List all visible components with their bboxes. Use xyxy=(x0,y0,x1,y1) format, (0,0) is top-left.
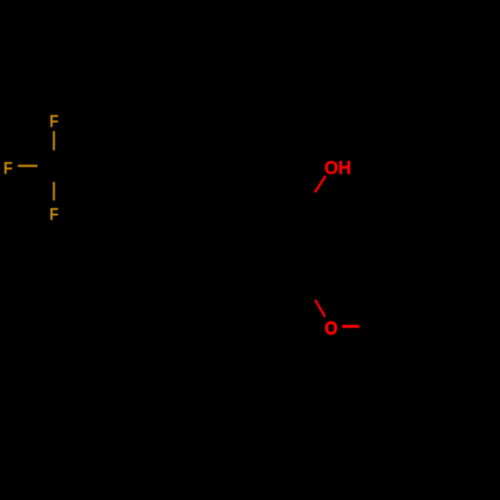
svg-text:F: F xyxy=(49,111,58,131)
bond C3-O2 (red half, diagonal up-left from O) xyxy=(315,300,325,317)
bond C1-O1 (red half, diagonal down-left from OH) xyxy=(315,176,326,192)
svg-text:O: O xyxy=(325,318,338,339)
bond C7-F2 (orange half, horizontal) xyxy=(18,165,38,167)
bond O2-C9 (red half, horizontal right from O) xyxy=(342,325,359,328)
svg-text:F: F xyxy=(49,204,58,224)
svg-text:F: F xyxy=(3,158,12,178)
svg-text:OH: OH xyxy=(324,158,351,178)
bond C7-F1 (orange half, vertical upper) xyxy=(53,131,55,150)
bond C7-F3 (orange half, vertical lower) xyxy=(53,182,55,201)
